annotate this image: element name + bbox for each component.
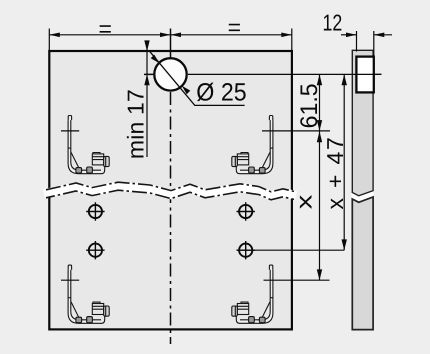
side view panel upper: [352, 50, 373, 196]
dim 61.5 line: [319, 74, 321, 130]
plate break upper wavy line: [46, 182, 294, 192]
dim min17 arrow down: [144, 40, 149, 51]
hole top-right: [237, 202, 255, 220]
dim x+47 line: [343, 74, 345, 250]
svg-text:x: x: [291, 195, 316, 210]
dim x+47 arrows: [342, 74, 347, 85]
dim = left arrows: [49, 33, 60, 38]
hole center line across side view: [352, 73, 381, 75]
bracket top-left: [68, 116, 109, 174]
plate break lower wavy line: [46, 190, 294, 200]
hole top-left: [86, 202, 104, 220]
ref line lower holes: [237, 249, 344, 251]
hole D25: [154, 58, 186, 90]
dim 12 extension lines: [357, 31, 374, 57]
dim = right line: [171, 34, 292, 36]
D25 leader arrow upper: [151, 55, 160, 64]
bracket bottom-right: [232, 265, 273, 323]
dim = right arrows: [171, 33, 182, 38]
svg-text:12: 12: [323, 10, 343, 36]
svg-text:=: =: [228, 14, 241, 40]
D25 leader line: [149, 51, 244, 106]
ref cross top-left bracket: [61, 130, 79, 132]
mounting plate (front view): [49, 51, 292, 329]
dim 61.5 arrows: [317, 74, 322, 85]
bracket bottom-left: [68, 265, 109, 323]
ref line top hooks: [262, 130, 330, 132]
side view break gap: [352, 190, 374, 202]
hole in side view: [356, 57, 373, 93]
dim min17 arrow up: [144, 74, 149, 85]
dim = left line: [49, 34, 170, 36]
ref cross bottom-left bracket: [61, 279, 79, 281]
dim 12 right line+arrow: [374, 34, 392, 36]
bracket top-right: [232, 116, 273, 174]
svg-text:=: =: [98, 15, 111, 41]
ref line hole center to side view: [188, 73, 382, 75]
svg-text:x + 47: x + 47: [322, 137, 348, 209]
dim 12 left line+arrow: [341, 34, 357, 36]
plate break band: [44, 186, 296, 196]
hole bottom-right: [237, 241, 255, 259]
side view panel lower: [352, 197, 373, 330]
vertical centerline: [170, 29, 172, 86]
dim x line: [319, 131, 321, 280]
horizontal centerline of hole: [144, 73, 188, 75]
svg-text:Ø 25: Ø 25: [196, 78, 246, 106]
svg-text:min 17: min 17: [123, 89, 149, 159]
dim = left extension line: [49, 29, 291, 51]
dim min17 line: [146, 41, 148, 157]
dim x arrows: [317, 131, 322, 142]
hole bottom-left: [86, 241, 104, 259]
ref line bottom hooks: [264, 279, 330, 281]
D25 leader arrow lower: [182, 86, 191, 95]
svg-text:61.5: 61.5: [296, 83, 323, 128]
